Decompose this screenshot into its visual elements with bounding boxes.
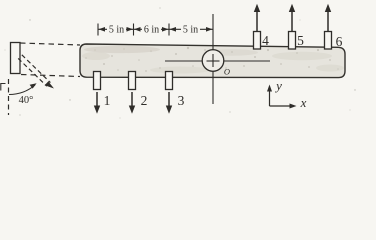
dimension tick 1 bbox=[97, 24, 99, 36]
beam shading blotches bbox=[82, 46, 344, 74]
dimension text 5 in (right) bbox=[181, 24, 200, 34]
svg-text:5 in: 5 in bbox=[183, 25, 198, 36]
tab 6 bbox=[325, 32, 332, 50]
svg-text:5 in: 5 in bbox=[109, 25, 124, 36]
dimension text 6 in bbox=[142, 24, 161, 34]
vertical centerline through O bbox=[212, 14, 214, 104]
force arrow 1 (down) bbox=[94, 92, 100, 114]
dimension arrowheads bbox=[99, 27, 213, 32]
arc arrowhead bbox=[30, 83, 37, 88]
svg-text:2: 2 bbox=[141, 93, 148, 108]
dimension tick 3 bbox=[168, 24, 170, 36]
svg-text:y: y bbox=[274, 78, 282, 93]
tab 2 bbox=[129, 72, 136, 90]
force arrow 5 (up) bbox=[289, 4, 295, 31]
dimension text 5 in bbox=[107, 24, 200, 36]
horizontal line through O bbox=[165, 60, 270, 62]
x axis bbox=[270, 105, 292, 107]
inclined force (double dashed shaft) bbox=[18, 55, 50, 86]
circle cross horizontal bbox=[207, 60, 220, 62]
force arrow 3 (down) bbox=[166, 92, 172, 114]
dimension tick 2 bbox=[133, 24, 135, 36]
tab 4 bbox=[254, 32, 261, 50]
svg-text:3: 3 bbox=[178, 93, 185, 108]
svg-text:4: 4 bbox=[262, 33, 269, 48]
top dashed line (hidden edge to beam) bbox=[20, 43, 80, 45]
circle O bbox=[202, 50, 224, 72]
svg-text:5: 5 bbox=[297, 33, 304, 48]
beam speckle texture bbox=[85, 47, 339, 72]
inclined force arrowhead bbox=[45, 81, 54, 88]
svg-text:6: 6 bbox=[336, 34, 343, 49]
corner tick mark bbox=[1, 84, 6, 91]
bottom dashed line (hidden edge to beam) bbox=[21, 75, 80, 77]
tab 3 bbox=[166, 72, 173, 90]
force arrow 4 (up) bbox=[254, 4, 260, 31]
40 degree arc bbox=[9, 85, 35, 95]
tab 1 bbox=[94, 72, 101, 90]
svg-text:1: 1 bbox=[104, 93, 111, 108]
left bracket rectangle bbox=[11, 43, 21, 74]
force arrow 2 (down) bbox=[129, 92, 135, 114]
force arrow 6 (up) bbox=[325, 4, 331, 31]
tab 5 bbox=[289, 32, 296, 50]
vertical dashed reference line bbox=[8, 79, 10, 115]
dimension line bbox=[98, 28, 213, 30]
circle cross vertical bbox=[212, 54, 214, 67]
beam body (rounded plate) bbox=[80, 44, 345, 78]
y axis bbox=[269, 90, 271, 106]
svg-text:x: x bbox=[300, 95, 307, 110]
dust specks bbox=[5, 7, 356, 118]
svg-text:O: O bbox=[224, 67, 230, 77]
svg-text:40°: 40° bbox=[19, 95, 34, 106]
svg-text:6 in: 6 in bbox=[144, 25, 159, 36]
